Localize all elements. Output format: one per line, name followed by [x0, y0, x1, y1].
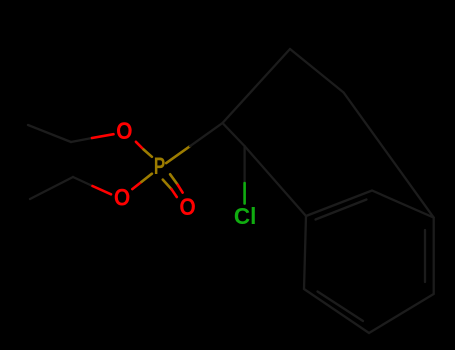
- svg-text:O: O: [179, 194, 195, 221]
- wire: apex-C4: [290, 49, 344, 93]
- ring inner double bond bottom-LL: [318, 292, 364, 322]
- wire: O1-P red half: [136, 142, 144, 150]
- benzene ring outline: [304, 191, 434, 334]
- svg-text:O: O: [114, 185, 130, 212]
- wire: P=O3 line A olive: [163, 180, 172, 190]
- wire: P-C1 olive half: [166, 146, 190, 163]
- svg-text:O: O: [116, 118, 132, 145]
- wire: P=O3 line B olive: [170, 174, 178, 185]
- wire: CH2b-O2 dark half: [73, 177, 93, 186]
- wire: O1-P olive half: [144, 150, 152, 157]
- wire: O2-P olive half: [142, 174, 152, 182]
- wire: P=O3 line A red: [172, 189, 177, 197]
- wire: P=O3 line B red: [178, 185, 183, 193]
- wire: CH2a-O1 red half: [92, 134, 114, 138]
- wire: ethyl CH3a-CH2a: [28, 125, 71, 142]
- ring inner double bond UR-LR: [424, 230, 426, 282]
- wire: O2-P red half: [132, 182, 141, 189]
- svg-text:Cl: Cl: [234, 203, 257, 229]
- ring inner double bond UL-top: [316, 200, 367, 220]
- wire: C2-ring UL: [245, 146, 307, 216]
- wire: C1-apex: [223, 49, 291, 123]
- wire: CH2a-O1 dark half: [71, 138, 92, 142]
- svg-text:P: P: [154, 153, 166, 180]
- wire: ethyl CH3b-CH2b: [30, 177, 73, 199]
- wire: CH2b-O2 red half: [93, 186, 112, 194]
- wire: C4-ring UR: [344, 93, 434, 218]
- wire: C1-C2: [223, 123, 245, 146]
- wire: C2-Cl dark half: [243, 146, 245, 183]
- wire: C2-Cl green half: [243, 183, 246, 204]
- wire: P-C1 dark half: [190, 123, 223, 146]
